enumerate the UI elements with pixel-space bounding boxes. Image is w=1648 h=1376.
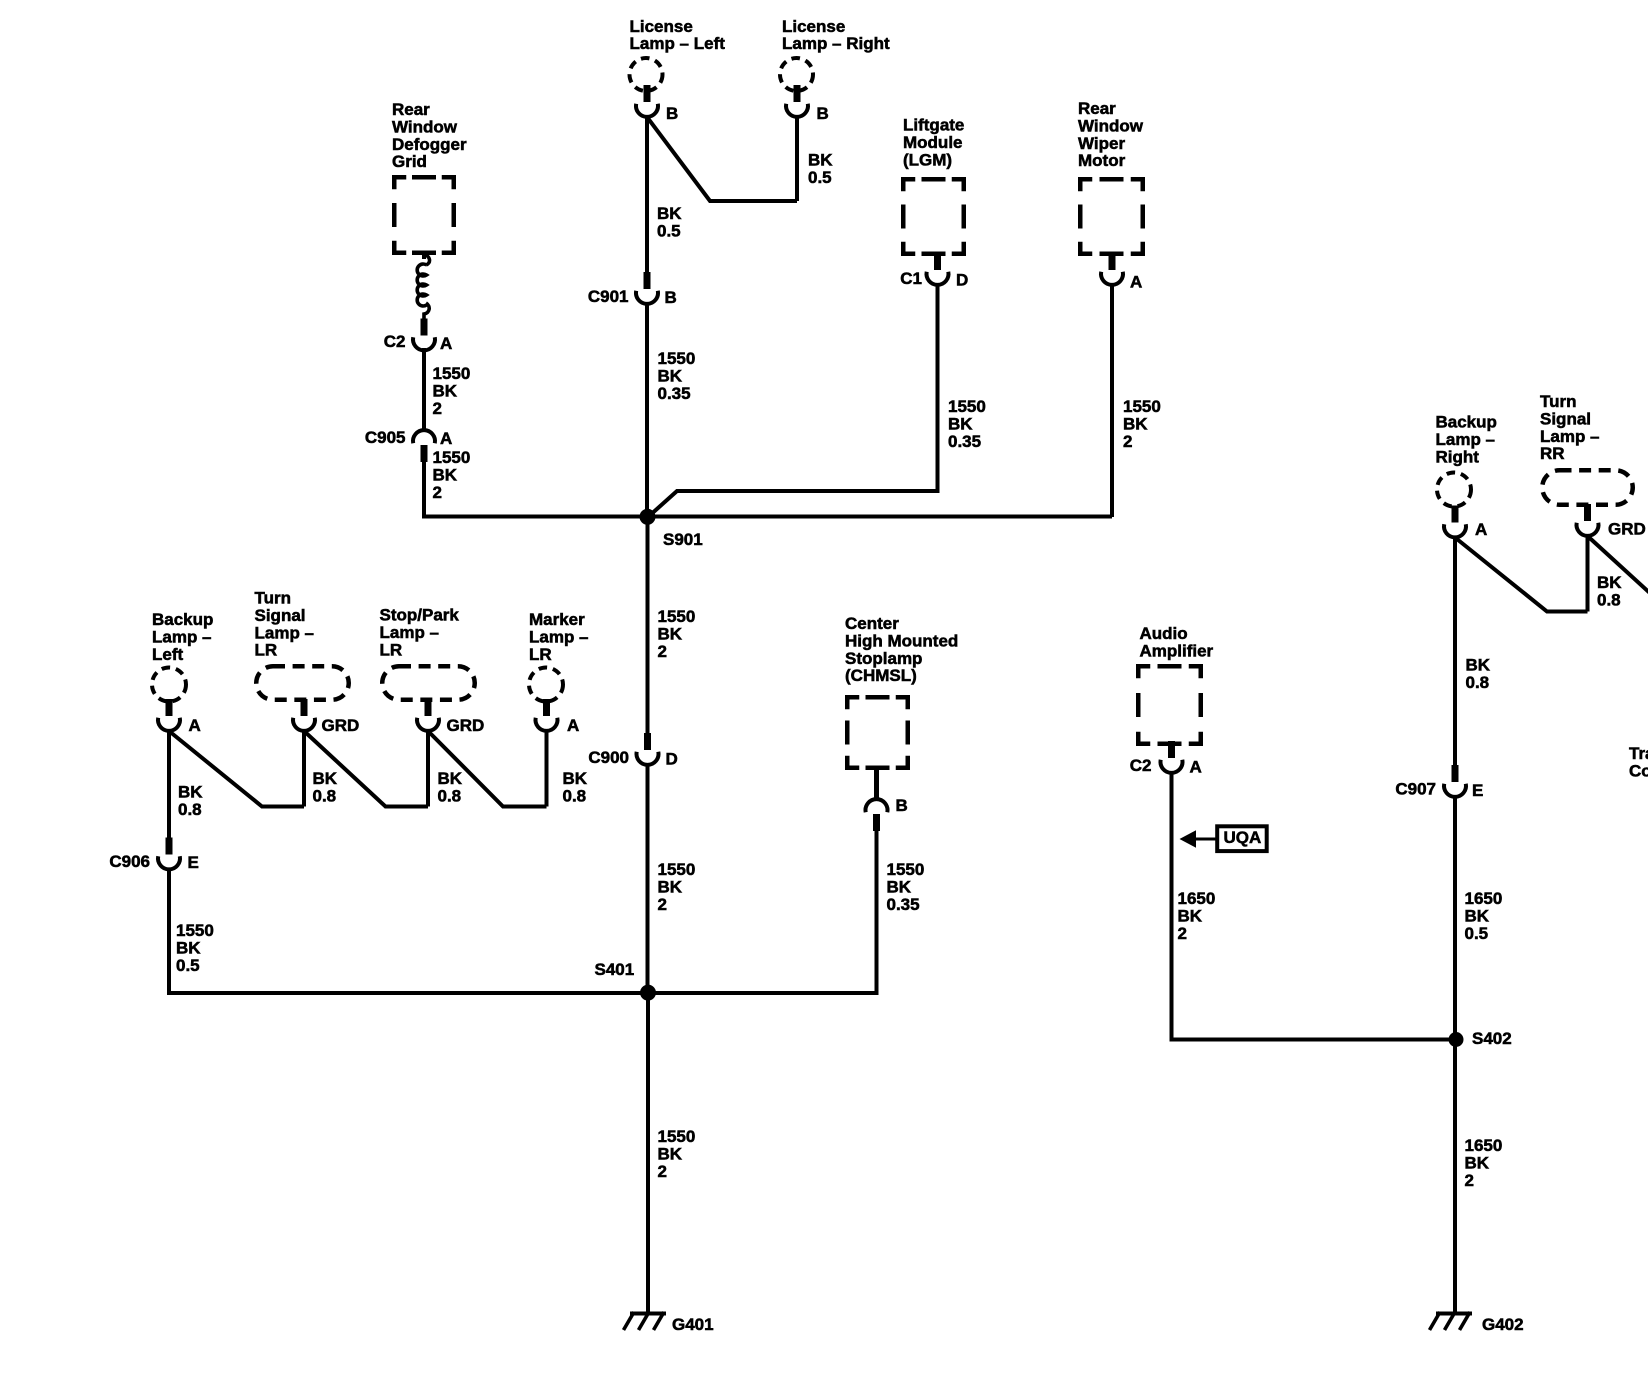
svg-text:C907: C907 bbox=[1395, 780, 1436, 799]
label pin GRD (turn signal LR) bbox=[322, 716, 360, 735]
label 1550 BK 2 (defogger upper) bbox=[433, 364, 471, 418]
label Trailer Connector (clipped) bbox=[1629, 744, 1648, 780]
svg-text:A: A bbox=[440, 429, 452, 448]
component License Lamp - Right (dashed circle) bbox=[780, 58, 813, 91]
svg-text:C1: C1 bbox=[900, 269, 922, 288]
component Backup Lamp - Right (dashed circle) bbox=[1437, 473, 1471, 507]
svg-text:C901: C901 bbox=[588, 287, 629, 306]
svg-text:0.5: 0.5 bbox=[808, 168, 832, 187]
svg-text:Lamp –: Lamp – bbox=[1436, 430, 1496, 449]
svg-text:2: 2 bbox=[658, 1162, 667, 1181]
svg-text:C2: C2 bbox=[384, 332, 406, 351]
label BK 0.5 (license left) bbox=[657, 204, 682, 240]
svg-text:BK: BK bbox=[1597, 573, 1622, 592]
label 1550 BK 0.35 (CHMSL) bbox=[887, 860, 925, 914]
label 1550 BK 0.5 (C906) bbox=[176, 921, 214, 975]
svg-text:(LGM): (LGM) bbox=[903, 150, 952, 169]
svg-text:BK: BK bbox=[658, 367, 683, 386]
connector license left pin B bbox=[636, 85, 658, 117]
svg-text:Right: Right bbox=[1436, 447, 1480, 466]
label C907 bbox=[1395, 780, 1436, 799]
svg-text:0.35: 0.35 bbox=[948, 432, 981, 451]
label Turn Signal Lamp - RR bbox=[1540, 392, 1600, 463]
svg-text:BK: BK bbox=[658, 878, 683, 897]
label BK 0.8 (marker LR) bbox=[563, 769, 588, 805]
label C1 bbox=[900, 269, 922, 288]
label 1550 BK 0.35 (C901) bbox=[658, 349, 696, 403]
label 1550 BK 2 (wiper) bbox=[1123, 397, 1161, 451]
label pin E (C906) bbox=[188, 853, 199, 872]
label BK 0.8 (stop/park LR) bbox=[438, 769, 463, 805]
connector stop/park LR pin GRD bbox=[417, 699, 439, 731]
wire C907 to G402 bbox=[1453, 797, 1457, 1313]
svg-text:LR: LR bbox=[529, 645, 552, 664]
wire C900 to S401 bbox=[646, 765, 650, 993]
label 1650 BK 2 (S402-G402) bbox=[1465, 1136, 1503, 1190]
connector backup left pin A bbox=[158, 699, 180, 731]
svg-text:BK: BK bbox=[658, 1145, 683, 1164]
svg-text:B: B bbox=[896, 796, 908, 815]
svg-text:Stop/Park: Stop/Park bbox=[380, 606, 460, 625]
connector wiper pin A bbox=[1101, 253, 1123, 285]
connector marker LR pin A bbox=[536, 699, 558, 731]
svg-text:D: D bbox=[956, 271, 968, 290]
splice S401 bbox=[640, 985, 656, 1001]
svg-text:A: A bbox=[189, 716, 201, 735]
svg-text:BK: BK bbox=[313, 769, 338, 788]
svg-text:Liftgate: Liftgate bbox=[903, 116, 964, 135]
svg-text:Rear: Rear bbox=[1078, 99, 1116, 118]
component Liftgate Module (dashed box) bbox=[903, 179, 964, 254]
component CHMSL (dashed box) bbox=[847, 697, 908, 768]
wire backup left to C906 bbox=[167, 731, 171, 838]
svg-text:Defogger: Defogger bbox=[392, 135, 467, 154]
svg-text:1650: 1650 bbox=[1465, 889, 1503, 908]
component Backup Lamp - Left (dashed circle) bbox=[152, 668, 186, 702]
svg-text:BK: BK bbox=[1465, 907, 1490, 926]
svg-text:BK: BK bbox=[433, 466, 458, 485]
svg-text:G402: G402 bbox=[1482, 1315, 1524, 1334]
svg-text:Rear: Rear bbox=[392, 100, 430, 119]
connector CHMSL pin B bbox=[865, 799, 887, 831]
svg-text:0.35: 0.35 bbox=[887, 895, 920, 914]
svg-text:Connector: Connector bbox=[1629, 762, 1648, 781]
connector C900 pin D bbox=[637, 733, 659, 765]
svg-text:BK: BK bbox=[657, 204, 682, 223]
svg-text:BK: BK bbox=[178, 783, 203, 802]
svg-text:G401: G401 bbox=[672, 1315, 714, 1334]
UQA option box bbox=[1217, 826, 1267, 851]
label 1550 BK 2 (S901-C900) bbox=[658, 607, 696, 661]
svg-text:2: 2 bbox=[433, 399, 442, 418]
label 1650 BK 0.5 (C907) bbox=[1465, 889, 1503, 943]
svg-text:1550: 1550 bbox=[433, 364, 471, 383]
svg-text:A: A bbox=[567, 716, 579, 735]
wire backup-turnsignal diagonal bbox=[169, 731, 304, 807]
splice S901 bbox=[640, 509, 656, 525]
wire S901 horizontal bbox=[424, 515, 1112, 519]
connector C905 pin A bbox=[413, 430, 435, 462]
svg-text:E: E bbox=[1472, 781, 1483, 800]
svg-text:B: B bbox=[817, 104, 829, 123]
label Turn Signal Lamp - LR bbox=[255, 589, 315, 660]
svg-text:C2: C2 bbox=[1130, 756, 1152, 775]
connector C901 pin B bbox=[636, 272, 658, 304]
svg-text:GRD: GRD bbox=[447, 716, 485, 735]
svg-text:0.5: 0.5 bbox=[176, 956, 200, 975]
connector C907 pin E bbox=[1444, 765, 1466, 797]
splice S402 bbox=[1449, 1032, 1464, 1047]
wire backup right to C907 bbox=[1453, 537, 1457, 766]
svg-text:0.8: 0.8 bbox=[1597, 591, 1621, 610]
svg-text:0.8: 0.8 bbox=[563, 787, 587, 806]
label BK 0.8 (turn signal RR) bbox=[1597, 573, 1622, 609]
svg-text:Lamp –: Lamp – bbox=[152, 628, 212, 647]
svg-text:A: A bbox=[1190, 758, 1202, 777]
wire marker drop bbox=[545, 731, 549, 807]
svg-text:D: D bbox=[666, 750, 678, 769]
svg-text:S402: S402 bbox=[1472, 1029, 1512, 1048]
label 1550 BK 2 (defogger lower) bbox=[433, 448, 471, 502]
label pin B (license left) bbox=[666, 104, 678, 123]
svg-text:B: B bbox=[665, 288, 677, 307]
connector license right pin B bbox=[786, 85, 808, 117]
component Rear Window Wiper Motor (dashed box) bbox=[1080, 179, 1143, 254]
svg-text:S901: S901 bbox=[663, 530, 703, 549]
label C2 (audio) bbox=[1130, 756, 1152, 775]
svg-text:BK: BK bbox=[887, 878, 912, 897]
label S402 bbox=[1472, 1029, 1512, 1048]
component Audio Amplifier (dashed box) bbox=[1138, 666, 1201, 744]
svg-text:Stoplamp: Stoplamp bbox=[845, 649, 922, 668]
connector backup right pin A bbox=[1444, 506, 1466, 538]
svg-text:0.5: 0.5 bbox=[657, 222, 681, 241]
svg-text:BK: BK bbox=[176, 939, 201, 958]
svg-text:0.8: 0.8 bbox=[438, 787, 462, 806]
svg-text:Window: Window bbox=[392, 118, 458, 137]
wire turn signal RR drop bbox=[1586, 536, 1590, 612]
label pin A (backup right) bbox=[1475, 520, 1487, 539]
wire C2 to C905 bbox=[422, 348, 426, 430]
wire S401 to G401 bbox=[646, 993, 650, 1313]
label pin D (C1) bbox=[956, 271, 968, 290]
label S901 bbox=[663, 530, 703, 549]
label pin D (C900) bbox=[666, 750, 678, 769]
label G402 bbox=[1482, 1315, 1524, 1334]
svg-text:Window: Window bbox=[1078, 117, 1144, 136]
wire stop/park drop bbox=[426, 731, 430, 807]
svg-text:1550: 1550 bbox=[433, 448, 471, 467]
label License Lamp - Left bbox=[630, 17, 726, 53]
label BK 0.5 (license right) bbox=[808, 151, 833, 187]
label G401 bbox=[672, 1315, 714, 1334]
svg-text:A: A bbox=[1475, 520, 1487, 539]
connector C2 pin A (audio) bbox=[1161, 741, 1183, 773]
wire turn signal drop bbox=[302, 731, 306, 807]
svg-text:Turn: Turn bbox=[1540, 392, 1577, 411]
svg-text:1550: 1550 bbox=[176, 921, 214, 940]
label BK 0.8 (backup right) bbox=[1466, 656, 1491, 692]
svg-text:2: 2 bbox=[658, 895, 667, 914]
label pin B (C901) bbox=[665, 288, 677, 307]
label pin A (C2) bbox=[440, 334, 452, 353]
svg-text:1550: 1550 bbox=[658, 1127, 696, 1146]
svg-text:BK: BK bbox=[808, 151, 833, 170]
component License Lamp - Left (dashed circle) bbox=[630, 58, 663, 91]
svg-text:Signal: Signal bbox=[1540, 410, 1591, 429]
label Backup Lamp - Left bbox=[152, 610, 213, 664]
svg-text:1550: 1550 bbox=[658, 607, 696, 626]
UQA option arrow bbox=[1180, 830, 1218, 847]
svg-text:Lamp – Right: Lamp – Right bbox=[782, 34, 890, 53]
svg-text:1550: 1550 bbox=[948, 397, 986, 416]
svg-text:BK: BK bbox=[1466, 656, 1491, 675]
svg-text:Lamp –: Lamp – bbox=[255, 623, 315, 642]
wire C905 to S901 horizontal bbox=[424, 460, 648, 517]
wire S901 to C900 bbox=[646, 517, 650, 736]
svg-text:S401: S401 bbox=[595, 960, 635, 979]
component Turn Signal Lamp - LR (dashed stadium) bbox=[256, 666, 349, 700]
svg-text:Grid: Grid bbox=[392, 152, 427, 171]
svg-text:(CHMSL): (CHMSL) bbox=[845, 666, 917, 685]
label pin A (audio C2) bbox=[1190, 758, 1202, 777]
wire backup right diagonal bbox=[1455, 538, 1588, 612]
svg-text:Wiper: Wiper bbox=[1078, 134, 1125, 153]
svg-text:BK: BK bbox=[433, 382, 458, 401]
svg-text:1550: 1550 bbox=[658, 860, 696, 879]
svg-text:Backup: Backup bbox=[1436, 413, 1497, 432]
connector turn signal LR pin GRD bbox=[293, 699, 315, 731]
label pin A (C905) bbox=[440, 429, 452, 448]
wire audio to S402 bbox=[1172, 773, 1457, 1040]
svg-text:1650: 1650 bbox=[1465, 1136, 1503, 1155]
wire defogger stem bbox=[422, 252, 426, 259]
svg-text:BK: BK bbox=[563, 769, 588, 788]
svg-text:2: 2 bbox=[1178, 924, 1187, 943]
svg-text:0.8: 0.8 bbox=[1466, 673, 1490, 692]
wire C906 to S401 horizontal bbox=[169, 868, 648, 993]
svg-text:Motor: Motor bbox=[1078, 151, 1126, 170]
svg-text:GRD: GRD bbox=[322, 716, 360, 735]
wire license right drop bbox=[795, 116, 799, 201]
svg-text:BK: BK bbox=[948, 415, 973, 434]
label C906 bbox=[109, 852, 150, 871]
svg-text:BK: BK bbox=[1465, 1154, 1490, 1173]
component Rear Window Defogger Grid (dashed box) bbox=[394, 177, 454, 253]
component Stop/Park Lamp - LR (dashed stadium) bbox=[382, 666, 475, 700]
label C2 bbox=[384, 332, 406, 351]
svg-text:Left: Left bbox=[152, 645, 184, 664]
svg-text:E: E bbox=[188, 853, 199, 872]
svg-text:BK: BK bbox=[1123, 415, 1148, 434]
connector turn signal RR pin GRD bbox=[1577, 504, 1599, 536]
label License Lamp - Right bbox=[782, 17, 890, 53]
label Marker Lamp - LR bbox=[529, 610, 589, 664]
svg-text:Lamp –: Lamp – bbox=[1540, 427, 1600, 446]
svg-text:High Mounted: High Mounted bbox=[845, 632, 958, 651]
label Stop/Park Lamp - LR bbox=[380, 606, 460, 660]
label pin E (C907) bbox=[1472, 781, 1483, 800]
label Rear Window Defogger Grid bbox=[392, 100, 467, 171]
ground G401 bbox=[624, 1312, 667, 1330]
svg-text:License: License bbox=[782, 17, 845, 36]
component Turn Signal Lamp - RR (dashed stadium) bbox=[1542, 470, 1633, 505]
svg-text:Module: Module bbox=[903, 133, 963, 152]
label pin GRD (stop/park LR) bbox=[447, 716, 485, 735]
svg-text:Amplifier: Amplifier bbox=[1140, 642, 1214, 661]
svg-text:Lamp –: Lamp – bbox=[380, 623, 440, 642]
label pin A (marker LR) bbox=[567, 716, 579, 735]
wire turn signal RR diagonal (clipped) bbox=[1588, 536, 1648, 595]
label pin B (license right) bbox=[817, 104, 829, 123]
svg-text:2: 2 bbox=[433, 483, 442, 502]
label 1650 BK 2 (audio) bbox=[1178, 889, 1216, 943]
label pin B (CHMSL) bbox=[896, 796, 908, 815]
svg-text:0.35: 0.35 bbox=[658, 384, 691, 403]
svg-text:Lamp –: Lamp – bbox=[529, 628, 589, 647]
wire C901 to S901 bbox=[645, 304, 649, 517]
label C901 bbox=[588, 287, 629, 306]
svg-text:2: 2 bbox=[1123, 432, 1132, 451]
defogger grid element (coil) bbox=[417, 254, 429, 323]
svg-text:Lamp – Left: Lamp – Left bbox=[630, 34, 726, 53]
label Backup Lamp - Right bbox=[1436, 413, 1497, 467]
svg-text:C905: C905 bbox=[365, 428, 406, 447]
wire CHMSL to S401 horizontal bbox=[648, 829, 877, 993]
svg-text:LR: LR bbox=[255, 641, 278, 660]
connector C906 pin E bbox=[158, 838, 180, 870]
label 1550 BK 2 (C900-S401) bbox=[658, 860, 696, 914]
label BK 0.8 (turn signal LR) bbox=[313, 769, 338, 805]
component Marker Lamp - LR (dashed circle) bbox=[529, 668, 563, 702]
svg-text:Trailer: Trailer bbox=[1629, 744, 1648, 763]
connector C2 pin A (defogger) bbox=[413, 319, 435, 351]
label pin GRD (turn signal RR) bbox=[1608, 520, 1646, 539]
svg-text:C900: C900 bbox=[588, 748, 629, 767]
label S401 bbox=[595, 960, 635, 979]
label pin A (backup left) bbox=[189, 716, 201, 735]
wire turnsignal-stoppark diagonal bbox=[304, 731, 428, 807]
label Liftgate Module (LGM) bbox=[903, 116, 964, 170]
svg-text:Audio: Audio bbox=[1140, 624, 1188, 643]
label C900 bbox=[588, 748, 629, 767]
wire license join diagonal bbox=[647, 117, 797, 201]
wire CHMSL stem bbox=[874, 768, 879, 800]
svg-text:2: 2 bbox=[1465, 1171, 1474, 1190]
svg-text:1550: 1550 bbox=[1123, 397, 1161, 416]
label Audio Amplifier bbox=[1140, 624, 1214, 660]
svg-text:C906: C906 bbox=[109, 852, 150, 871]
svg-text:A: A bbox=[1130, 273, 1142, 292]
label C905 bbox=[365, 428, 406, 447]
wire LGM to S901 bbox=[648, 285, 938, 517]
wire stoppark-marker diagonal bbox=[428, 731, 547, 807]
svg-text:LR: LR bbox=[380, 640, 403, 659]
svg-text:2: 2 bbox=[658, 642, 667, 661]
svg-text:1550: 1550 bbox=[658, 349, 696, 368]
label 1550 BK 0.35 (LGM) bbox=[948, 397, 986, 451]
svg-text:Marker: Marker bbox=[529, 610, 585, 629]
svg-text:BK: BK bbox=[658, 625, 683, 644]
svg-text:B: B bbox=[666, 104, 678, 123]
svg-text:BK: BK bbox=[1178, 907, 1203, 926]
label Rear Window Wiper Motor bbox=[1078, 99, 1144, 170]
svg-text:0.8: 0.8 bbox=[313, 787, 337, 806]
ground G402 bbox=[1430, 1312, 1473, 1330]
wire license left drop bbox=[645, 117, 649, 273]
svg-text:Signal: Signal bbox=[255, 606, 306, 625]
svg-text:Backup: Backup bbox=[152, 610, 213, 629]
label pin A (wiper) bbox=[1130, 273, 1142, 292]
svg-text:Center: Center bbox=[845, 614, 899, 633]
svg-text:A: A bbox=[440, 334, 452, 353]
svg-text:UQA: UQA bbox=[1224, 828, 1262, 847]
label BK 0.8 (backup left) bbox=[178, 783, 203, 819]
label UQA bbox=[1224, 828, 1262, 847]
svg-text:GRD: GRD bbox=[1608, 520, 1646, 539]
svg-text:License: License bbox=[630, 17, 693, 36]
svg-text:BK: BK bbox=[438, 769, 463, 788]
svg-text:RR: RR bbox=[1540, 444, 1565, 463]
svg-text:1550: 1550 bbox=[887, 860, 925, 879]
svg-text:0.8: 0.8 bbox=[178, 800, 202, 819]
svg-text:0.5: 0.5 bbox=[1465, 924, 1489, 943]
svg-text:1650: 1650 bbox=[1178, 889, 1216, 908]
wire wiper to S901 bbox=[1110, 285, 1114, 517]
label 1550 BK 2 (S401-G401) bbox=[658, 1127, 696, 1181]
svg-text:Turn: Turn bbox=[255, 589, 292, 608]
connector C1 pin D (LGM) bbox=[927, 253, 949, 285]
label Center High Mounted Stoplamp (CHMSL) bbox=[845, 614, 958, 685]
